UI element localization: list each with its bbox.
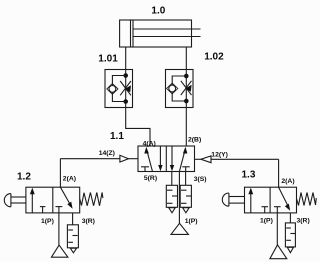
- flow control valve 1.01: [105, 70, 133, 108]
- wire 1.02 to valve 1.1 port 2(B): [185, 108, 187, 147]
- valve 1.3 pushbutton: [222, 193, 244, 206]
- svg-text:1.2: 1.2: [17, 171, 31, 182]
- pilot 14(Z) line: [60, 158, 120, 160]
- svg-text:1.02: 1.02: [204, 52, 224, 63]
- pilot 14(Z) triangle: [120, 155, 128, 162]
- valve 1.2 right box blocked 1(P) T: [56, 207, 63, 213]
- svg-text:1(P): 1(P): [260, 218, 273, 225]
- svg-text:14(Z): 14(Z): [99, 150, 115, 157]
- pilot 12(Y) line: [195, 158, 201, 160]
- flow control valve 1.02: [166, 70, 194, 108]
- svg-text:2(A): 2(A): [281, 178, 294, 185]
- valve 1.1 right box arrow to 2(B): [179, 147, 187, 172]
- compressed air supply for 1.1: [171, 223, 188, 234]
- valve 1.1 body 5/2 way: [138, 146, 195, 172]
- svg-text:3(R): 3(R): [297, 218, 310, 225]
- svg-text:1.0: 1.0: [151, 6, 165, 17]
- valve 1.2 left box up arrow: [30, 188, 35, 213]
- valve 1.1 left box down arrow: [158, 146, 162, 171]
- svg-text:1(P): 1(P): [41, 218, 54, 225]
- wire cylinder right port to 1.02: [185, 47, 187, 70]
- valve 1.2 right box diagonal 2(A) to 3(R): [60, 187, 72, 209]
- silencer on 1.3 3(R): [285, 223, 295, 253]
- valve 1.2 pushbutton: [4, 194, 26, 207]
- wire valve 1.3 2(A) up to pilot line: [278, 159, 280, 187]
- valve 1.3 left box blocked T: [262, 207, 269, 213]
- valve 1.2 return spring: [80, 193, 103, 206]
- valve 1.3 right box diagonal 2(A) to 3(R): [279, 187, 291, 211]
- pilot 12(Y) triangle: [201, 156, 211, 163]
- wire valve 1.3 3(R) to silencer: [289, 213, 291, 223]
- cylinder 1.0: [120, 20, 201, 47]
- silencer on 3(S): [180, 185, 191, 213]
- valve 1.1 right box blocked port T: [182, 167, 189, 172]
- svg-text:4(A): 4(A): [143, 140, 156, 147]
- svg-text:12(Y): 12(Y): [211, 151, 228, 158]
- svg-text:2(A): 2(A): [63, 176, 76, 183]
- wire valve 1.1 port 3(S) to silencer: [185, 172, 187, 186]
- valve 1.2 body 3/2 way: [26, 187, 80, 213]
- wire valve 1.3 1(P) down: [276, 213, 278, 245]
- valve 1.3 left box up arrow: [248, 188, 253, 213]
- valve 1.2 left box blocked T: [40, 207, 46, 213]
- wire valve 1.2 2(A) up to pilot line: [59, 159, 61, 188]
- wire valve 1.2 3(R) to silencer: [72, 213, 74, 225]
- silencer on 1.2 3(R): [67, 225, 78, 253]
- wire 1.01 to valve 1.1 port 4(A): [126, 108, 150, 147]
- svg-text:1.1: 1.1: [110, 131, 124, 142]
- air supply 1.3: [270, 245, 287, 259]
- svg-text:1.01: 1.01: [98, 53, 118, 64]
- svg-text:5(R): 5(R): [144, 175, 157, 182]
- valve 1.3 body 3/2 way: [245, 187, 297, 213]
- valve 1.1 left box arrow to 4(A): [144, 147, 152, 172]
- svg-text:1(P): 1(P): [185, 218, 198, 225]
- wire valve 1.1 port 1(P) supply: [178, 172, 180, 224]
- svg-text:2(B): 2(B): [188, 136, 201, 143]
- valve 1.1 left box blocked port T: [141, 167, 149, 172]
- air supply 1.2: [51, 245, 68, 257]
- svg-text:3(S): 3(S): [194, 176, 207, 183]
- valve 1.3 return spring: [297, 193, 317, 206]
- wire valve 1.1 port 5(R) to silencer: [171, 172, 173, 186]
- silencer on 5(R): [166, 185, 177, 213]
- svg-text:3(R): 3(R): [82, 218, 95, 225]
- svg-text:1.3: 1.3: [242, 169, 256, 180]
- wire cylinder left port to 1.01: [125, 47, 127, 70]
- wire valve 1.2 1(P) down: [58, 213, 60, 245]
- valve 1.3 right box blocked 1(P) T: [274, 207, 281, 213]
- valve 1.1 right box down arrow: [170, 146, 174, 171]
